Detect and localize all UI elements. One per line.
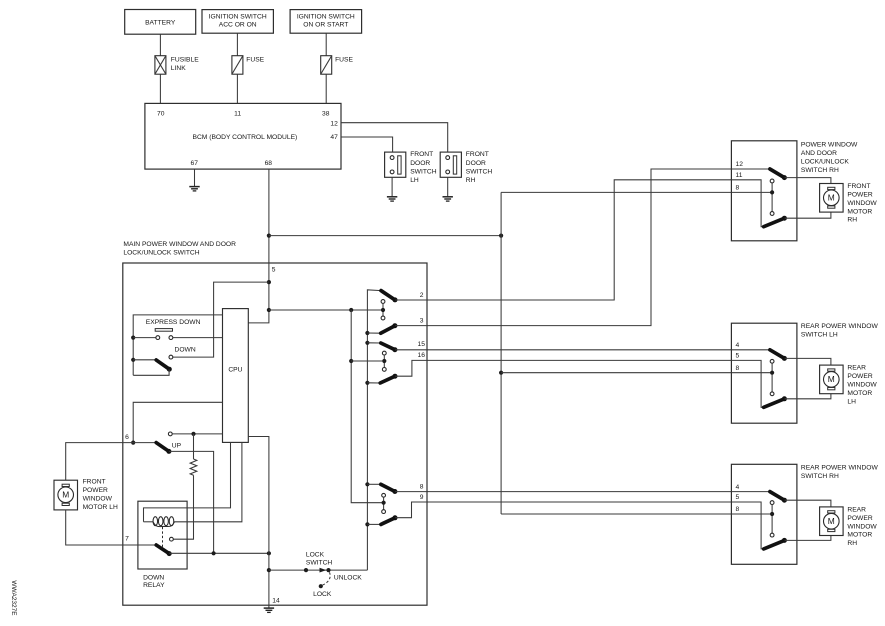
switch lever pin 16 [380, 376, 395, 383]
down switch lever SW1 [156, 360, 169, 369]
contact pair link [771, 363, 773, 392]
svg-text:FUSIBLE: FUSIBLE [171, 56, 199, 63]
svg-text:2: 2 [420, 292, 424, 299]
wire lever to motor (top) [785, 178, 831, 184]
contact pair top [770, 359, 774, 363]
svg-text:AND DOOR: AND DOOR [801, 150, 837, 157]
wire pin5 node to down-contact feed [173, 282, 269, 357]
svg-text:SWITCH: SWITCH [466, 169, 493, 176]
ignition switch ACC or ON source box [202, 10, 273, 34]
svg-text:BCM (BODY CONTROL MODULE): BCM (BODY CONTROL MODULE) [193, 134, 298, 141]
svg-text:RH: RH [847, 217, 857, 224]
lock position dot [319, 584, 323, 588]
rear power window switch LH box [731, 323, 797, 423]
svg-text:SWITCH RH: SWITCH RH [801, 473, 839, 480]
svg-text:SWITCH RH: SWITCH RH [801, 167, 839, 174]
wire pin 12 to lever [731, 168, 770, 170]
wire resistor to relay contact [173, 475, 193, 539]
svg-text:6: 6 [125, 434, 129, 441]
wire pin 4 to lever [731, 491, 770, 493]
rear power window switch RH label [801, 464, 879, 480]
battery source box [125, 10, 196, 35]
wire lever to motor (top) [785, 358, 831, 365]
switch lever (up) rear power window switch LH [770, 350, 785, 359]
svg-text:DOOR: DOOR [466, 160, 486, 167]
wire BCM pin 68 down to main switch pin 5 [268, 169, 270, 263]
contact pair link [771, 183, 773, 212]
wire pin5 node to switch contact pairs [269, 309, 383, 311]
junction contact-rail mid [349, 359, 353, 363]
svg-text:FUSE: FUSE [335, 56, 353, 63]
wire main pin 3 to power window switch RH pin 12 [427, 169, 731, 326]
front power window motor RH label [847, 183, 877, 224]
wire riser to power window switch RH pin 8 [501, 191, 731, 193]
junction lever pin 16 [365, 381, 369, 385]
svg-text:IGNITION SWITCH: IGNITION SWITCH [209, 13, 267, 20]
relay lever SW3 [156, 545, 169, 554]
svg-text:M: M [828, 374, 835, 384]
wire lever to motor (bottom) [785, 536, 831, 541]
svg-text:5: 5 [736, 353, 740, 360]
wire to express contact [133, 337, 156, 339]
svg-text:POWER WINDOW: POWER WINDOW [801, 141, 858, 148]
svg-text:MOTOR: MOTOR [847, 532, 872, 539]
svg-text:5: 5 [272, 267, 276, 274]
power window and door lock/unlock switch RH box [731, 141, 797, 241]
junction node pin-68 branch [267, 234, 271, 238]
wire pin-68 node to power-supply riser [269, 235, 501, 237]
wire up contact to CPU [172, 433, 222, 435]
svg-text:UP: UP [172, 442, 182, 449]
svg-text:BATTERY: BATTERY [145, 20, 176, 27]
wire express contact to CPU [173, 337, 223, 339]
wire lever to motor (top) [785, 500, 831, 507]
svg-text:FRONT: FRONT [83, 478, 106, 485]
switch lever (up) power window and door lock/unlock switch RH [770, 169, 785, 178]
svg-text:LOCK/UNLOCK SWITCH: LOCK/UNLOCK SWITCH [123, 249, 199, 256]
relay actuation dashed link [162, 527, 164, 548]
junction riser / rear switch LH pin 8 [499, 371, 503, 375]
svg-text:M: M [828, 516, 835, 526]
relay contact [170, 537, 174, 541]
relay coil L1 [144, 517, 175, 527]
wire fuse to BCM pin 11 [236, 74, 238, 103]
svg-text:4: 4 [736, 484, 740, 491]
wire pin 5 to lower lever [731, 502, 763, 549]
wire pin 7 to relay lever [123, 544, 156, 546]
junction pair A [381, 308, 385, 312]
svg-text:11: 11 [736, 172, 743, 179]
wire pin 11 to lower lever [731, 180, 763, 227]
junction up-lever / relay output [212, 551, 216, 555]
lock switch dashed throw [322, 572, 330, 585]
contact pair B link [383, 355, 385, 368]
junction down lever pivot [131, 358, 135, 362]
main power window and door lock/unlock switch label [123, 241, 236, 256]
wire pin 5 node vertical into CPU [248, 263, 269, 323]
contact pair top [770, 501, 774, 505]
wire supply riser vertical [500, 192, 502, 514]
svg-text:7: 7 [125, 535, 129, 542]
wire front motor LH to pin 7 [66, 510, 123, 545]
wire lever to pin 3 [395, 325, 427, 327]
svg-text:DOOR: DOOR [410, 160, 430, 167]
wire front door switch RH to ground [447, 177, 449, 196]
wire riser to rear power window switch RH pin 8 [501, 513, 731, 515]
lock switch fixed contact [304, 568, 308, 572]
switch lever pin 2 [381, 291, 395, 300]
wire pin 6 to up lever [123, 442, 156, 444]
fusible link [155, 56, 166, 74]
svg-text:RELAY: RELAY [143, 582, 165, 589]
junction lever pin 3 [365, 331, 369, 335]
switch lever (down) rear power window switch LH [764, 399, 785, 408]
wire battery to fusible link [159, 34, 161, 56]
svg-text:68: 68 [265, 160, 273, 167]
rear power window motor LH [820, 365, 844, 394]
svg-text:FRONT: FRONT [847, 183, 870, 190]
wire ignition ACC to fuse [236, 33, 238, 56]
junction pin5/contact row [267, 308, 271, 312]
svg-text:12: 12 [330, 121, 338, 128]
svg-text:REAR: REAR [847, 507, 866, 514]
junction resistor tap [191, 432, 195, 436]
rear power window motor RH label [847, 507, 877, 548]
wire main pin 2 to power window switch RH pin 11 [427, 180, 731, 300]
wire lever pivot pin 3 [367, 332, 380, 334]
wire lever to pin 9 (step) [395, 502, 427, 518]
contact pair A link [382, 303, 384, 316]
front power window motor LH label [83, 478, 118, 511]
svg-text:LINK: LINK [171, 65, 186, 72]
svg-text:RH: RH [466, 177, 476, 184]
svg-text:FUSE: FUSE [246, 56, 264, 63]
junction contact-rail top [349, 308, 353, 312]
svg-text:WINDOW: WINDOW [847, 200, 877, 207]
svg-text:POWER: POWER [83, 487, 108, 494]
switch lever pin 8 [381, 484, 395, 491]
wire down lever return loop [133, 369, 169, 375]
svg-text:MAIN POWER WINDOW AND DOOR: MAIN POWER WINDOW AND DOOR [123, 241, 236, 248]
contact pair B bottom [382, 368, 386, 372]
switch lever (down) rear power window switch RH [764, 540, 785, 549]
wire CPU to up-switch common [133, 402, 222, 442]
svg-text:12: 12 [736, 161, 744, 168]
svg-text:FRONT: FRONT [466, 151, 489, 158]
junction up-switch common [131, 441, 135, 445]
switch lever pin 9 [381, 518, 395, 525]
svg-text:WWA2327E: WWA2327E [10, 580, 17, 616]
svg-text:WINDOW: WINDOW [83, 495, 113, 502]
svg-text:FRONT: FRONT [410, 151, 433, 158]
svg-text:LOCK: LOCK [313, 591, 332, 598]
wire main pin 15 to rear switch LH pin 4 [427, 349, 731, 351]
wire pin 8 to contact pair [731, 513, 772, 515]
svg-text:38: 38 [322, 110, 330, 117]
svg-text:M: M [828, 193, 835, 203]
junction pin5/express-down [267, 280, 271, 284]
fuse (ON or START) [321, 56, 332, 74]
svg-text:DOWN: DOWN [175, 346, 196, 353]
main power window and door lock/unlock switch box [123, 263, 427, 605]
svg-text:M: M [62, 490, 69, 500]
svg-text:REAR POWER WINDOW: REAR POWER WINDOW [801, 464, 879, 471]
contact pair link [771, 505, 773, 534]
contact pair bottom [770, 533, 774, 537]
junction on supply riser [499, 234, 503, 238]
front door switch RH label [466, 151, 493, 184]
svg-text:67: 67 [190, 160, 198, 167]
junction express contact [131, 336, 135, 340]
junction relay output / ground rail [267, 551, 271, 555]
contact pair A top [381, 300, 385, 304]
svg-text:11: 11 [234, 110, 241, 117]
svg-text:REAR: REAR [847, 365, 866, 372]
rear power window motor RH [820, 507, 844, 536]
wire pin 4 to lever [731, 349, 770, 351]
svg-text:DOWN: DOWN [143, 575, 164, 582]
svg-text:8: 8 [420, 484, 424, 491]
wire pin 6 to front motor LH [66, 443, 123, 481]
junction pair C [382, 501, 386, 505]
wire ignition ON/START to fuse [325, 33, 327, 56]
contact pair bottom [770, 392, 774, 396]
svg-text:RH: RH [847, 540, 857, 547]
wire contact rail to pair B [351, 360, 382, 362]
svg-text:3: 3 [420, 318, 424, 325]
down contact [169, 355, 173, 359]
svg-text:70: 70 [157, 110, 165, 117]
svg-text:SWITCH: SWITCH [410, 169, 437, 176]
svg-text:16: 16 [418, 352, 426, 359]
svg-text:8: 8 [736, 506, 740, 513]
contact rail vertical [351, 310, 381, 503]
svg-text:CPU: CPU [228, 367, 242, 374]
down relay box K1 [138, 501, 187, 569]
junction pair B [382, 359, 386, 363]
wire pin 8 to contact pair [731, 191, 772, 193]
front power window motor LH [54, 480, 78, 510]
rear power window switch LH label [801, 323, 879, 339]
contact pair bottom [770, 212, 774, 216]
front door switch LH label [410, 151, 437, 184]
front door switch LH [385, 152, 406, 177]
contact pair B top [382, 351, 386, 355]
wire pin 5 to lower lever [731, 360, 763, 407]
svg-text:14: 14 [272, 598, 280, 605]
svg-text:POWER: POWER [847, 373, 872, 380]
lock switch pivot [326, 568, 330, 572]
wire express-down top to CPU [133, 315, 222, 375]
switch lever (down) power window and door lock/unlock switch RH [764, 218, 785, 227]
wire lever pivot pin 15 [367, 342, 380, 344]
wire down lever pivot [133, 359, 156, 361]
lever rail vertical [367, 290, 381, 570]
ground (BCM pin 67) [189, 187, 199, 191]
svg-text:8: 8 [736, 185, 740, 192]
express down actuator bar [155, 329, 172, 332]
contact pair C bottom [382, 510, 386, 514]
wire relay lever output [169, 552, 269, 554]
wire CPU to ground rail [248, 437, 269, 554]
down relay label [143, 575, 165, 590]
rear power window switch RH box [731, 464, 797, 564]
contact pair C link [383, 497, 385, 510]
fusible link label [171, 56, 199, 72]
switch lever pin 15 [381, 343, 395, 350]
svg-text:SWITCH LH: SWITCH LH [801, 332, 838, 339]
wire BCM pin 47 to front door switch LH [341, 137, 393, 152]
svg-text:15: 15 [418, 341, 426, 348]
svg-text:MOTOR: MOTOR [847, 208, 872, 215]
wire lever to pin 16 (step) [395, 360, 427, 376]
svg-text:LH: LH [847, 398, 856, 405]
svg-text:REAR POWER WINDOW: REAR POWER WINDOW [801, 323, 879, 330]
svg-text:LOCK/UNLOCK: LOCK/UNLOCK [801, 158, 849, 165]
ignition switch ON or START source box [290, 10, 362, 34]
svg-text:MOTOR: MOTOR [847, 390, 872, 397]
contact pair top [770, 179, 774, 183]
wire CPU to relay coil (left) [144, 442, 231, 521]
wire relay coil to CPU (right) [174, 442, 242, 521]
wire main pin 16 to rear switch LH pin 5 [427, 359, 731, 361]
contact pair C top [382, 493, 386, 497]
up contact [168, 432, 172, 436]
wire lever to pin 15 [395, 349, 427, 351]
BCM (body control module) box [145, 103, 341, 169]
svg-text:9: 9 [420, 494, 424, 501]
wire fusible link to BCM pin 70 [159, 74, 161, 103]
express-down contact (right) [169, 336, 173, 340]
wire lever to pin 8 [395, 491, 427, 493]
svg-text:IGNITION SWITCH: IGNITION SWITCH [297, 13, 355, 20]
wire BCM pin 67 to ground [194, 169, 196, 186]
junction contact pair [770, 190, 774, 194]
wire main pin 9 to rear switch RH pin 5 [427, 501, 731, 503]
lock switch arrow [320, 568, 327, 573]
svg-text:47: 47 [330, 134, 338, 141]
front power window motor RH [820, 184, 844, 213]
wire up lever output [169, 451, 214, 553]
wire lever pivot pin 9 [367, 523, 381, 525]
junction contact pair [770, 512, 774, 516]
CPU box U1 [223, 309, 249, 443]
svg-text:LOCK: LOCK [306, 551, 325, 558]
svg-text:WINDOW: WINDOW [847, 523, 877, 530]
wire ground rail to pin 14 [268, 553, 270, 605]
wire lever to motor (bottom) [785, 212, 831, 218]
svg-text:8: 8 [736, 365, 740, 372]
resistor R1 [193, 434, 195, 459]
wire pin 14 to ground [268, 605, 270, 608]
wire riser to rear power window switch LH pin 8 [501, 372, 731, 374]
express-down contact (left) [156, 336, 160, 340]
svg-text:MOTOR LH: MOTOR LH [83, 504, 118, 511]
wire lock switch row [269, 569, 368, 571]
wire front door switch LH to ground [391, 177, 393, 196]
svg-text:LH: LH [410, 177, 419, 184]
switch lever (up) rear power window switch RH [770, 492, 785, 501]
svg-text:WINDOW: WINDOW [847, 382, 877, 389]
lock switch label [306, 551, 333, 566]
svg-text:POWER: POWER [847, 192, 872, 199]
junction ground rail / lock switch [267, 568, 271, 572]
ground (front door switch RH) [443, 197, 453, 201]
wire lever to motor (bottom) [785, 394, 831, 399]
wire fuse to BCM pin 38 [325, 74, 327, 103]
wire lever to pin 2 [395, 299, 427, 301]
rear power window motor LH label [847, 365, 877, 406]
front door switch RH [440, 152, 461, 177]
junction lever pin 9 [365, 522, 369, 526]
junction contact pair [770, 371, 774, 375]
svg-text:POWER: POWER [847, 515, 872, 522]
power window and door lock/unlock switch RH label [801, 141, 858, 174]
svg-text:EXPRESS DOWN: EXPRESS DOWN [146, 319, 201, 326]
svg-text:SWITCH: SWITCH [306, 559, 333, 566]
up switch lever SW2 [156, 443, 169, 452]
svg-text:4: 4 [736, 342, 740, 349]
svg-text:ON OR START: ON OR START [303, 22, 348, 29]
ground (front door switch LH) [387, 197, 397, 201]
junction lever pin 15 [365, 341, 369, 345]
wire lever pivot pin 8 [367, 483, 380, 485]
svg-text:5: 5 [736, 494, 740, 501]
switch lever pin 3 [381, 326, 395, 334]
ground (main switch pin 14) [264, 608, 274, 612]
wire lever pivot pin 16 [367, 382, 380, 384]
fuse (ACC) [232, 56, 243, 74]
wire pin 8 to contact pair [731, 372, 772, 374]
wire main pin 8 to rear switch RH pin 4 [427, 491, 731, 493]
wire BCM pin 12 to front door switch RH [341, 123, 448, 152]
svg-text:UNLOCK: UNLOCK [334, 575, 362, 582]
contact pair A bottom [381, 316, 385, 320]
svg-text:ACC OR ON: ACC OR ON [219, 22, 257, 29]
junction lever pin 8 [365, 482, 369, 486]
